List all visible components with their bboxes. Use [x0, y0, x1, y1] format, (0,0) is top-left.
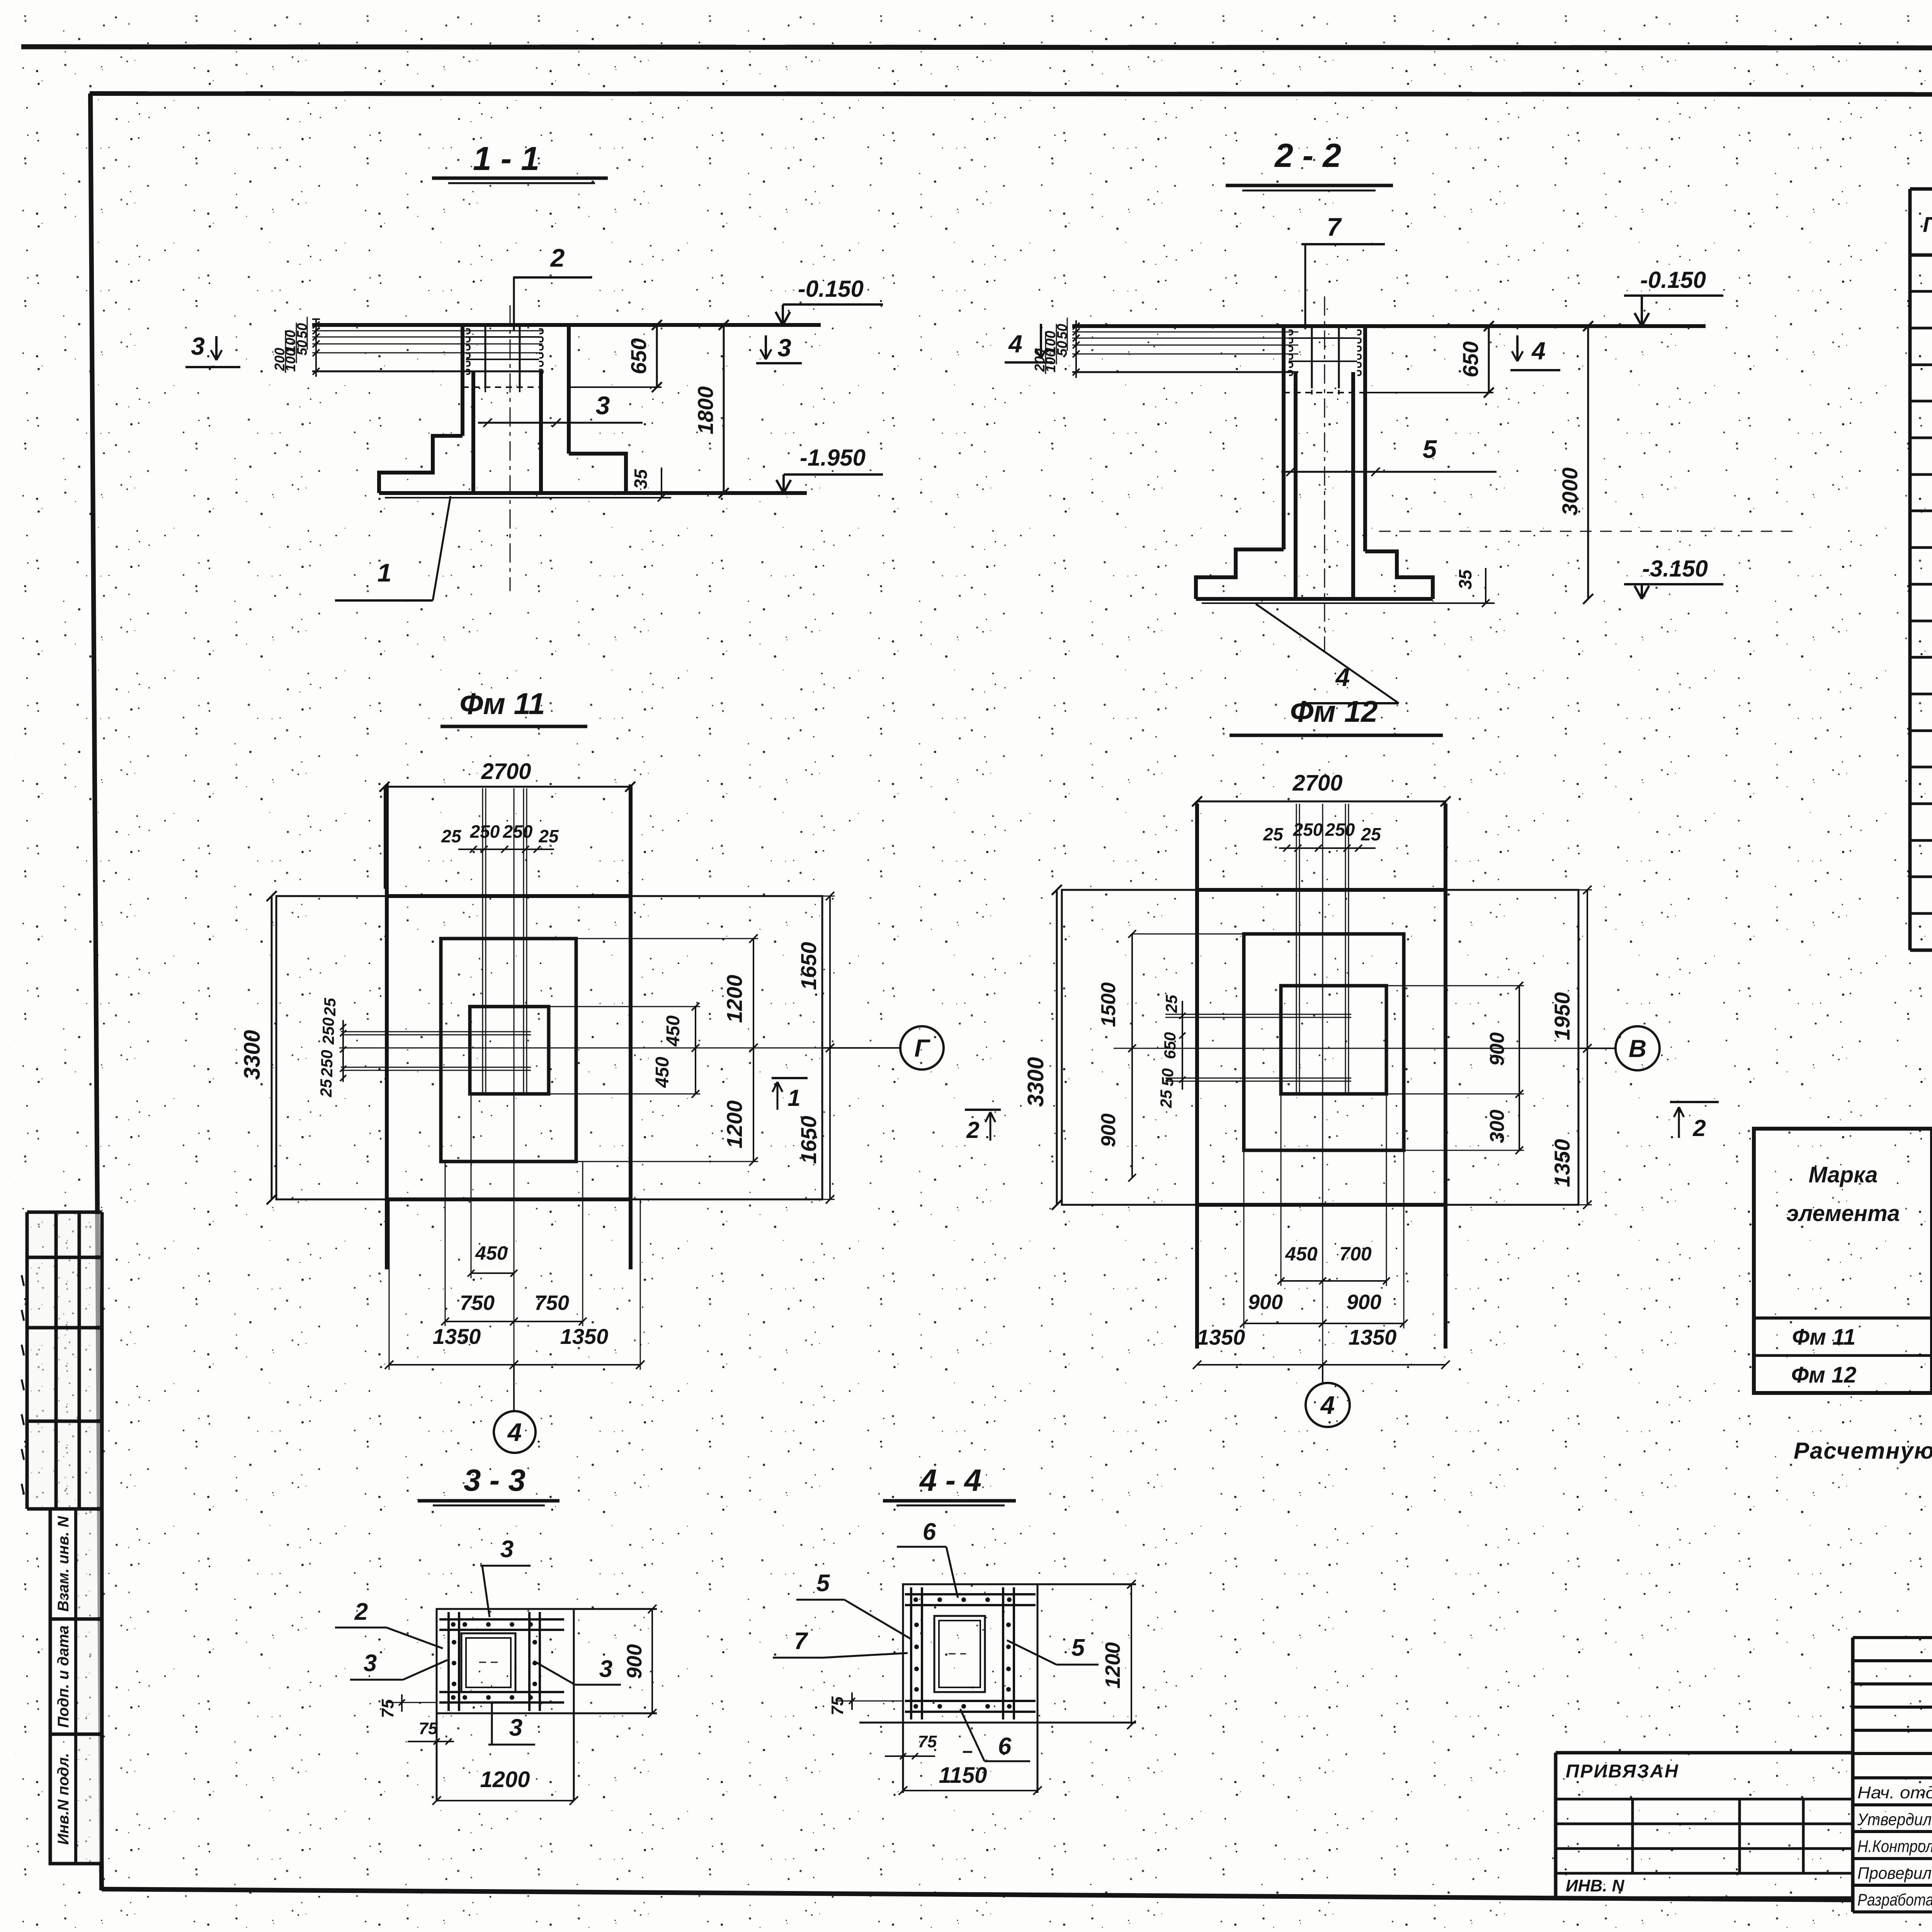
plan fm12 dim 2700: [1197, 801, 1446, 803]
section 4-4 column pocket: [934, 1616, 985, 1692]
svg-text:1350: 1350: [1197, 1325, 1245, 1349]
svg-text:750: 750: [460, 1291, 495, 1315]
svg-text:3: 3: [777, 334, 791, 362]
plan fm12 dim 1500 / 900 left: [1131, 934, 1133, 1178]
section 3-3 center dashes: [479, 1662, 498, 1663]
plan fm11 left bolt dim stack: [342, 1020, 344, 1082]
section 3-3 column pocket: [461, 1633, 515, 1692]
svg-text:6: 6: [923, 1519, 936, 1545]
svg-text:2700: 2700: [1292, 770, 1342, 796]
svg-text:250: 250: [503, 821, 533, 842]
plan fm12 dim 900 / 300 right: [1519, 986, 1520, 1150]
steel table horizontals: [1932, 1167, 1932, 1170]
section 3-3 concrete outline: [437, 1609, 574, 1713]
svg-text:450: 450: [652, 1057, 673, 1088]
svg-text:1350: 1350: [433, 1324, 481, 1349]
inner frame left: [90, 94, 102, 1890]
svg-text:2 - 2: 2 - 2: [1274, 137, 1341, 174]
section 2-2 layer dim stack: [1075, 320, 1077, 378]
svg-text:Марка: Марка: [1808, 1162, 1878, 1187]
svg-text:3: 3: [599, 1656, 612, 1682]
section 2-2 footing bottom: [1196, 597, 1433, 601]
svg-text:3: 3: [500, 1536, 514, 1563]
plan fm11 axis G: [822, 1047, 900, 1049]
svg-text:5: 5: [816, 1570, 830, 1597]
section 1-1 slab layer lines: [312, 330, 543, 332]
svg-text:-3.150: -3.150: [1642, 556, 1708, 582]
section 2-2 column outline: [1282, 326, 1286, 549]
svg-text:Фм 12: Фм 12: [1791, 1362, 1857, 1388]
section mark down-4 right: [1516, 335, 1519, 361]
section 4-4 concrete outline: [903, 1584, 1037, 1723]
svg-text:3300: 3300: [1023, 1057, 1048, 1107]
svg-text:Поз.: Поз.: [1923, 212, 1932, 236]
dim 650 section 2-2: [1488, 326, 1490, 393]
svg-text:1200: 1200: [480, 1767, 530, 1792]
section 1-1 centerline: [510, 305, 511, 591]
steel table verticals: [1930, 1129, 1932, 1393]
svg-text:4: 4: [1008, 330, 1022, 358]
svg-text:4 - 4: 4 - 4: [919, 1463, 981, 1497]
svg-text:75: 75: [419, 1719, 438, 1738]
svg-text:1: 1: [787, 1085, 800, 1111]
inner frame bottom left segment: [102, 1889, 1854, 1900]
section 1-1 left footing steps: [379, 436, 463, 493]
svg-text:2: 2: [354, 1599, 368, 1625]
svg-text:650: 650: [626, 338, 651, 374]
svg-text:25: 25: [441, 826, 462, 846]
svg-text:3 - 3: 3 - 3: [464, 1463, 526, 1497]
svg-text:2: 2: [1692, 1115, 1706, 1141]
plan fm12 outer pit rect: [1062, 890, 1578, 1205]
svg-text:1150: 1150: [939, 1763, 987, 1788]
svg-text:Г: Г: [914, 1034, 930, 1062]
plan fm11 dim 1650 1650: [829, 896, 831, 1199]
svg-text:35: 35: [631, 469, 651, 489]
section 1-1 floor line: [312, 323, 821, 327]
dim 1800 section 1-1: [723, 325, 725, 493]
svg-text:Фм 11: Фм 11: [459, 687, 545, 721]
svg-text:Инв.N подл.: Инв.N подл.: [55, 1753, 72, 1845]
svg-text:25: 25: [1361, 824, 1381, 844]
dim 650 section 1-1: [656, 325, 658, 387]
svg-text:-1.950: -1.950: [800, 445, 866, 471]
svg-text:элемента: элемента: [1786, 1201, 1900, 1226]
section 4-4 dim 1200: [1131, 1584, 1132, 1725]
plan fm12 anchor bolt axes: [1296, 804, 1297, 1094]
plan fm12 section mark up-2 right: [1670, 1101, 1719, 1103]
section 1-1 anchor bolts: [466, 329, 470, 333]
svg-text:50: 50: [1158, 1068, 1177, 1087]
section 1-1 pedestal walls: [471, 371, 475, 493]
svg-text:1: 1: [378, 558, 392, 587]
section 2-2 anchor bolts: [1289, 330, 1293, 335]
plan fm12 dim 1950 / 1350 right: [1587, 890, 1588, 1205]
svg-text:250: 250: [1325, 820, 1355, 840]
section 2-2 floor line: [1072, 324, 1706, 328]
svg-text:900: 900: [1097, 1114, 1120, 1147]
svg-text:-0.150: -0.150: [1640, 267, 1706, 293]
svg-text:1 - 1: 1 - 1: [473, 140, 539, 177]
plan fm11 dim 450 450 right: [695, 1007, 696, 1094]
plan fm11 dim 2700: [384, 786, 630, 788]
svg-text:2: 2: [550, 243, 565, 272]
plan fm11 footing edges: [385, 784, 389, 1269]
svg-text:250: 250: [1293, 820, 1323, 840]
svg-text:1950: 1950: [1550, 992, 1574, 1041]
svg-text:5: 5: [1071, 1634, 1085, 1661]
svg-text:4: 4: [1320, 1391, 1335, 1419]
section 4-4 stirrup cage: [910, 1587, 912, 1719]
svg-text:3: 3: [596, 391, 610, 420]
svg-text:2: 2: [966, 1117, 979, 1143]
svg-text:Расчетную схему Фм 11 см. на: Расчетную схему Фм 11 см. на листе 9 , Ф…: [1794, 1438, 1932, 1464]
svg-text:3000: 3000: [1558, 468, 1582, 516]
svg-text:Фм 11: Фм 11: [1792, 1325, 1856, 1350]
svg-text:1650: 1650: [796, 942, 821, 990]
plan fm12 dim 3300: [1056, 890, 1058, 1205]
svg-text:25: 25: [317, 1079, 335, 1097]
section 2-2 centerline: [1324, 296, 1325, 651]
svg-text:450: 450: [475, 1242, 508, 1264]
svg-text:25: 25: [1162, 995, 1180, 1013]
svg-text:900: 900: [1347, 1291, 1381, 1314]
section 1-1 footing bottom: [379, 491, 807, 495]
svg-text:-0.150: -0.150: [798, 276, 864, 302]
svg-text:1350: 1350: [560, 1324, 609, 1349]
plan fm11 centerlines: [514, 788, 515, 1403]
svg-text:1650: 1650: [796, 1116, 821, 1164]
svg-text:Утвердил: Утвердил: [1857, 1810, 1932, 1829]
svg-text:1200: 1200: [722, 975, 747, 1023]
plan fm12 axis circle 4: [1322, 1365, 1323, 1383]
spec table grid: [1908, 189, 1912, 950]
section 2-2 left steps: [1196, 549, 1284, 599]
svg-text:2700: 2700: [481, 759, 531, 784]
svg-text:3: 3: [364, 1650, 377, 1677]
section 3-3 rebar dots: [451, 1622, 456, 1627]
plan fm11 section mark up-1: [772, 1077, 808, 1079]
steel table outer: [1754, 1129, 1932, 1393]
svg-text:35: 35: [1455, 569, 1475, 590]
section 4-4 rebar dots: [913, 1597, 918, 1602]
cut-off letters at sheet left edge: [22, 1275, 24, 1286]
svg-text:25: 25: [1157, 1090, 1175, 1108]
section mark down-3 right: [765, 335, 767, 359]
section 1-1 right footing step: [569, 454, 626, 493]
section 2-2 slab layers: [1072, 332, 1298, 333]
svg-text:1200: 1200: [722, 1100, 747, 1149]
plan fm12 pedestal rect: [1281, 986, 1386, 1094]
svg-text:450: 450: [1285, 1243, 1318, 1265]
plan fm11 dim 3300: [271, 896, 273, 1199]
svg-text:300: 300: [1486, 1110, 1509, 1143]
plan fm11 anchor bolt axes: [482, 788, 483, 1094]
plan fm11 axis circle 4: [513, 1365, 515, 1411]
svg-text:450: 450: [663, 1015, 684, 1047]
svg-text:75: 75: [378, 1699, 397, 1718]
svg-text:5: 5: [1423, 435, 1437, 463]
long dashed ground line: [1379, 531, 1801, 532]
plan fm12 footing edges: [1195, 804, 1199, 1349]
svg-text:900: 900: [623, 1644, 646, 1679]
plan fm12 inner dim stack: [1182, 1001, 1183, 1090]
section 4-4 center dash: [949, 1653, 966, 1655]
plan fm11 outer pit rect: [276, 896, 822, 1199]
svg-text:Подп. и дата: Подп. и дата: [55, 1626, 72, 1728]
left stamp table upper: [27, 1211, 102, 1214]
inner frame top: [90, 94, 1932, 95]
svg-text:ИНВ. N: ИНВ. N: [1566, 1876, 1625, 1895]
svg-text:25: 25: [538, 826, 559, 846]
section 3-3 stirrup cage: [447, 1612, 450, 1711]
svg-text:25: 25: [1263, 824, 1284, 844]
svg-text:4: 4: [507, 1418, 522, 1446]
section 2-2 right steps: [1365, 551, 1433, 599]
svg-text:900: 900: [1486, 1032, 1509, 1066]
svg-text:25: 25: [321, 998, 339, 1016]
svg-text:Фм 12: Фм 12: [1290, 694, 1378, 728]
svg-text:700: 700: [1339, 1243, 1372, 1265]
svg-text:Проверил: Проверил: [1857, 1864, 1932, 1883]
svg-text:250: 250: [319, 1017, 337, 1045]
section 1-1 left layer dim stack: [315, 319, 317, 377]
svg-text:3: 3: [191, 332, 205, 360]
svg-text:75: 75: [828, 1696, 847, 1715]
svg-text:Взам. инв. N: Взам. инв. N: [55, 1516, 72, 1612]
svg-text:1500: 1500: [1097, 982, 1120, 1027]
dim 3000 section 2-2: [1587, 326, 1589, 599]
svg-text:3: 3: [509, 1714, 522, 1741]
svg-text:750: 750: [534, 1291, 569, 1315]
svg-text:6: 6: [998, 1733, 1012, 1760]
svg-text:Разработал: Разработал: [1857, 1891, 1932, 1910]
outer border top: [21, 47, 1932, 48]
plan fm12 step rect: [1244, 934, 1404, 1150]
svg-text:ПРИВЯЗАН: ПРИВЯЗАН: [1566, 1761, 1679, 1782]
svg-text:7: 7: [794, 1628, 808, 1655]
plan fm12 axis V: [1578, 1048, 1615, 1049]
svg-text:1800: 1800: [693, 386, 718, 435]
svg-text:1350: 1350: [1550, 1139, 1574, 1187]
section 2-2 pedestal walls: [1294, 372, 1298, 599]
svg-text:900: 900: [1248, 1291, 1283, 1314]
svg-text:Нач. отд.: Нач. отд.: [1857, 1783, 1932, 1802]
svg-text:250: 250: [470, 821, 500, 842]
svg-text:75: 75: [918, 1732, 937, 1751]
svg-text:7: 7: [1327, 213, 1342, 241]
plan fm12 centerlines: [1322, 804, 1323, 1376]
left rotated stamp strip: [50, 1509, 102, 1619]
plan fm11 step rect: [441, 939, 576, 1162]
svg-text:1200: 1200: [1101, 1642, 1124, 1689]
svg-text:3300: 3300: [240, 1030, 265, 1080]
privyazan table: [1556, 1751, 1853, 1755]
signature table: [1853, 1636, 1932, 1639]
svg-text:650: 650: [1161, 1032, 1179, 1059]
plan fm11 pedestal rect: [470, 1007, 549, 1094]
svg-text:1350: 1350: [1349, 1325, 1397, 1349]
section 1-1 column outline: [461, 325, 464, 436]
svg-text:В: В: [1629, 1034, 1646, 1062]
plan fm11 dim 1200 1200: [753, 939, 754, 1162]
svg-text:250: 250: [318, 1050, 336, 1077]
section 3-3 dim 900: [651, 1609, 653, 1713]
svg-text:Н.Контроль: Н.Контроль: [1857, 1837, 1932, 1856]
svg-text:650: 650: [1458, 341, 1483, 377]
svg-text:4: 4: [1531, 337, 1546, 365]
